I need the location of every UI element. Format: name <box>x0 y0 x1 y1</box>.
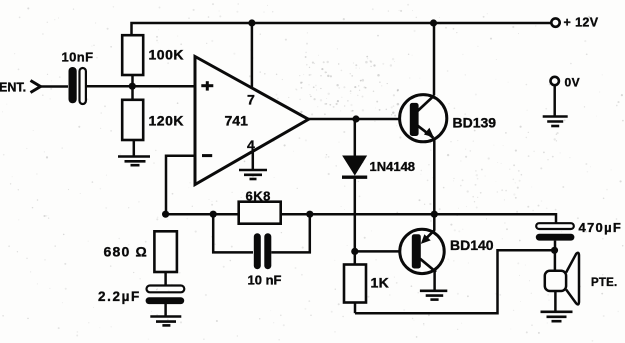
svg-text:10 nF: 10 nF <box>248 273 282 288</box>
wire output rail / feedback <box>166 214 556 223</box>
resistor 680 ohm <box>154 231 177 272</box>
terminal +12V <box>551 18 559 26</box>
ground speaker <box>541 312 573 321</box>
svg-text:+ 12V: + 12V <box>564 16 599 30</box>
speaker PTE. <box>545 250 579 311</box>
wire BD140 collector to ground <box>433 272 436 291</box>
svg-text:1K: 1K <box>371 275 390 291</box>
wire input <box>41 85 69 88</box>
node emitters <box>431 211 438 218</box>
ground 0V <box>543 117 568 127</box>
wire bootstrap <box>355 250 554 313</box>
wire 100K to node <box>131 75 134 86</box>
wire 10nF branch left <box>213 214 253 252</box>
svg-text:470µF: 470µF <box>579 220 623 235</box>
node 6K8 left <box>210 211 217 218</box>
wire 0V to ground <box>553 85 556 116</box>
input arrow chevron <box>31 81 41 93</box>
wire op-amp output <box>309 118 410 121</box>
svg-text:680 Ω: 680 Ω <box>104 244 148 260</box>
wire cap to node <box>86 85 195 88</box>
wire BD139 emitter <box>433 140 436 215</box>
svg-text:1N4148: 1N4148 <box>370 159 416 174</box>
wire pin 7 <box>251 23 254 88</box>
resistor 120K <box>122 100 143 140</box>
diode D1 1N4148 <box>342 119 367 251</box>
capacitor 2.2uF <box>146 286 185 305</box>
wire 470uF to node <box>554 241 557 251</box>
wire pin 4 <box>252 152 255 170</box>
node speaker <box>551 247 558 254</box>
node input bias <box>129 83 136 90</box>
node rail/BD139 collector <box>430 19 437 26</box>
capacitor 10nF input <box>69 67 86 104</box>
wire node to 120K <box>131 86 134 100</box>
wire BD140 emitter <box>433 214 436 230</box>
op-amp U1 741 triangle <box>195 57 309 185</box>
transistor Q1 BD139 <box>400 95 447 142</box>
transistor Q2 BD140 <box>400 229 444 273</box>
wire 1K to bootstrap <box>354 303 357 314</box>
node BD140 base <box>351 248 358 255</box>
node output <box>352 115 359 122</box>
svg-text:6K8: 6K8 <box>246 189 271 204</box>
node minus feedback <box>162 211 169 218</box>
terminal 0V <box>551 77 559 85</box>
capacitor 10nF feedback <box>254 233 271 269</box>
resistor 100K <box>122 35 143 75</box>
node rail/pin7 <box>248 19 255 26</box>
ground BD140 <box>420 291 447 300</box>
svg-text:10nF: 10nF <box>62 50 94 65</box>
svg-text:BD140: BD140 <box>450 237 494 253</box>
wire 680 to cap <box>164 272 167 286</box>
op-amp minus sign <box>202 154 212 157</box>
ground 2.2uF <box>150 317 181 326</box>
svg-text:741: 741 <box>225 113 249 129</box>
capacitor 470uF <box>536 223 575 240</box>
wire 10nF branch right <box>271 214 310 252</box>
wire BD139 collector <box>433 23 436 95</box>
svg-text:100K: 100K <box>149 47 184 63</box>
svg-text:ENT.: ENT. <box>0 81 26 95</box>
svg-text:4: 4 <box>247 137 255 153</box>
wire 2.2uF to ground <box>164 304 167 316</box>
svg-text:7: 7 <box>247 92 255 108</box>
wire +12V top rail <box>132 23 552 36</box>
resistor 1K <box>344 265 366 303</box>
svg-text:2.2µF: 2.2µF <box>98 289 141 304</box>
ground pin 4 <box>239 170 267 179</box>
svg-text:0V: 0V <box>565 76 581 90</box>
wire BD140 base <box>355 250 411 253</box>
svg-text:PTE.: PTE. <box>591 277 617 289</box>
ground 120K <box>118 157 150 166</box>
resistor 6K8 <box>239 202 281 224</box>
wire minus input <box>166 156 195 215</box>
svg-text:BD139: BD139 <box>453 115 497 131</box>
wire node to 1K <box>354 251 357 264</box>
wire 120K to ground <box>133 140 136 156</box>
node 6K8 right <box>306 211 313 218</box>
op-amp plus sign <box>201 81 213 90</box>
svg-text:120K: 120K <box>149 113 184 129</box>
